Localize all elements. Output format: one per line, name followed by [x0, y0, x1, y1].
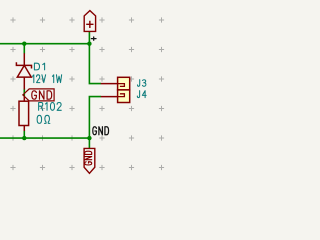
junction top-left	[22, 42, 26, 46]
net label +	[91, 37, 96, 40]
power GND text	[85, 151, 92, 165]
ref J4	[137, 91, 146, 98]
power symbol +	[84, 11, 95, 32]
power symbol GND outline	[84, 148, 95, 173]
diode D1 (zener)	[16, 53, 31, 89]
resistor R102	[19, 96, 29, 132]
connector J4	[101, 90, 130, 103]
wire bottom horizontal (GND net)	[0, 137, 89, 139]
junction bottom-right	[87, 136, 91, 140]
wire diode-resistor stub	[23, 89, 25, 96]
wire top horizontal (+ net)	[0, 43, 89, 45]
ref J3	[138, 80, 146, 87]
wire resistor bottom stub	[23, 131, 25, 139]
ref D1	[34, 63, 44, 70]
net label GND	[93, 127, 109, 135]
junction bottom-left	[22, 136, 26, 140]
value 12V 1W	[33, 75, 62, 83]
wire diode top stub	[23, 44, 25, 54]
ref R102	[39, 103, 62, 111]
junction top-right	[87, 42, 91, 46]
global label GND text	[32, 91, 52, 99]
value 0 ohm	[37, 115, 50, 123]
wire J4 to GND vertical	[89, 97, 101, 149]
global label GND outline	[23, 89, 54, 101]
connector J3	[101, 77, 130, 90]
wire vertical from power symbol down to J3	[89, 31, 101, 83]
